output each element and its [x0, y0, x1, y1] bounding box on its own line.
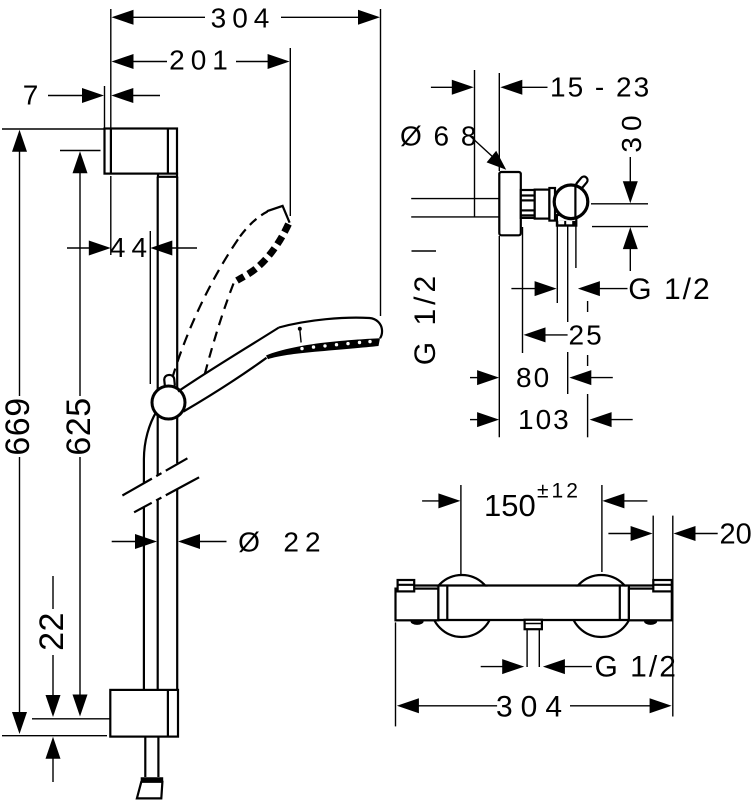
dim 304 top	[112, 3, 381, 34]
left connection bell	[431, 575, 493, 637]
cartridge adapter	[549, 188, 555, 221]
svg-text:103: 103	[518, 404, 571, 435]
hose below bracket right edge	[157, 737, 159, 777]
supply pipe lines	[411, 198, 499, 200]
escutcheon face extension line (15-23 right, 80/103 left)	[498, 73, 500, 171]
svg-text:Ø: Ø	[238, 527, 266, 558]
bottom outlet stub	[525, 620, 542, 629]
svg-text:22: 22	[33, 612, 71, 651]
spray nozzle dots	[300, 340, 371, 350]
dim 150 +/-12	[422, 480, 647, 524]
hose below bracket left edge	[144, 737, 146, 777]
dim 44	[67, 232, 197, 263]
svg-text:G 1/2: G 1/2	[628, 273, 711, 306]
hand shower handle lower edge	[184, 358, 267, 412]
holder circle	[152, 386, 185, 419]
hose cone outlet	[137, 777, 163, 798]
svg-text:7: 7	[23, 80, 45, 111]
dim Ø22 (rail diameter)	[112, 527, 327, 558]
svg-text:304: 304	[211, 3, 276, 34]
escutcheon disc (side)	[499, 172, 521, 235]
wall bracket (top)	[105, 129, 178, 177]
dim 669 top reference line	[2, 128, 105, 130]
dim 20	[608, 519, 751, 551]
lower wall bracket	[110, 690, 178, 737]
right joint lines	[619, 586, 621, 621]
dim G1/2 bottom	[481, 651, 678, 684]
handle lever	[575, 175, 589, 190]
right connection bell	[570, 575, 632, 637]
dim 22 vertical (bottom left)	[33, 576, 71, 782]
dim 44 extension line right	[149, 231, 151, 384]
dashed spray face band (upper position)	[237, 224, 289, 281]
svg-text:150: 150	[484, 488, 536, 523]
svg-text:20: 20	[720, 519, 752, 551]
rail right line mid segment	[176, 410, 178, 464]
svg-text:Ø 6 8: Ø 6 8	[400, 121, 478, 152]
dim 15-23	[431, 72, 651, 103]
dim 304 bottom	[397, 691, 672, 724]
handle foot with knurl	[557, 215, 576, 226]
select button mark	[298, 327, 302, 343]
left wall union	[398, 580, 415, 591]
dim 669/22 bottom reference line	[2, 735, 107, 737]
dashed head left edge	[240, 212, 268, 237]
dim 25	[523, 227, 604, 353]
dim 80	[470, 362, 613, 393]
holder nub	[164, 375, 175, 390]
svg-text:30: 30	[616, 109, 647, 152]
dim 150 extension line right	[601, 485, 603, 572]
hose curve from holder	[144, 412, 157, 483]
dim 44 extension line left	[110, 176, 112, 255]
dim 625/22 bottom reference line	[32, 718, 110, 720]
svg-text:G 1/2: G 1/2	[409, 272, 442, 365]
hand shower handle upper edge	[178, 328, 279, 392]
dim 625 vertical	[60, 151, 98, 716]
dim 7	[23, 80, 160, 111]
svg-text:15 - 23: 15 - 23	[550, 72, 651, 103]
dashed handle right edge	[204, 284, 234, 380]
dim 669 vertical	[0, 130, 37, 734]
dim 20 extension line right	[672, 516, 674, 717]
left joint lines	[437, 586, 439, 621]
solid corner of dashed head	[267, 206, 290, 223]
hand shower head outline	[279, 318, 382, 339]
svg-text:44: 44	[110, 232, 153, 263]
wall line / pipe end	[474, 70, 476, 217]
label G1/2 left (rotated)	[409, 251, 442, 365]
handle knob	[554, 185, 588, 219]
dim 150 extension line left	[460, 485, 462, 578]
svg-text:625: 625	[60, 397, 98, 455]
svg-text:201: 201	[169, 45, 234, 76]
rail right line lower segment	[176, 489, 178, 690]
label Ø68 with leader arrow	[400, 121, 506, 170]
rail left line lower segment	[157, 499, 159, 690]
break symbol lower diagonal	[134, 477, 199, 512]
svg-text:±12: ±12	[537, 480, 581, 503]
dim 304 extension line left	[110, 9, 112, 129]
left handle block	[396, 589, 439, 621]
svg-text:G 1/2: G 1/2	[595, 651, 678, 684]
knob front edge line	[574, 187, 576, 219]
dim 30 lower reference line	[592, 226, 648, 228]
svg-text:304: 304	[496, 691, 570, 724]
dim 304 extension line right	[380, 9, 382, 316]
outlet verticals below foot	[556, 226, 558, 303]
valve body section	[535, 190, 550, 219]
svg-text:22: 22	[283, 527, 326, 558]
outlet pipe lines	[526, 629, 528, 667]
left check valve nub	[411, 621, 424, 625]
handle front dashed extension	[587, 301, 589, 437]
hose line lower segment	[143, 507, 145, 691]
union nut with facet lines	[521, 190, 535, 218]
dim 30 upper reference line (handle axis)	[591, 203, 648, 205]
dim 201 extension line right	[289, 48, 291, 216]
spray face band (solid)	[266, 338, 380, 359]
svg-text:80: 80	[516, 362, 551, 393]
right wall union	[653, 580, 672, 591]
dim 20 extension line left	[652, 516, 654, 580]
wall extension line (7 dim)	[104, 86, 106, 129]
dim 201	[112, 45, 290, 76]
svg-text:25: 25	[569, 320, 604, 351]
rail left line upper segment	[157, 177, 159, 392]
dim 103	[470, 404, 633, 435]
svg-text:669: 669	[0, 397, 37, 455]
break symbol upper diagonal	[122, 458, 187, 495]
body bar fill	[414, 587, 653, 619]
dim G1/2 right	[511, 273, 711, 306]
rail right line upper segment	[176, 177, 178, 395]
right check valve nub	[644, 621, 657, 625]
dim 304 extension line left	[395, 622, 397, 726]
body bar top edge	[414, 584, 653, 586]
dim 625 top reference line	[60, 150, 101, 152]
rail left line mid segment (holder to break)	[157, 413, 159, 475]
dim 30 vertical	[616, 109, 647, 271]
body bar bottom edge	[396, 619, 672, 621]
dashed hand shower (upper position): handle left edge	[172, 236, 240, 379]
right handle block	[629, 589, 672, 621]
